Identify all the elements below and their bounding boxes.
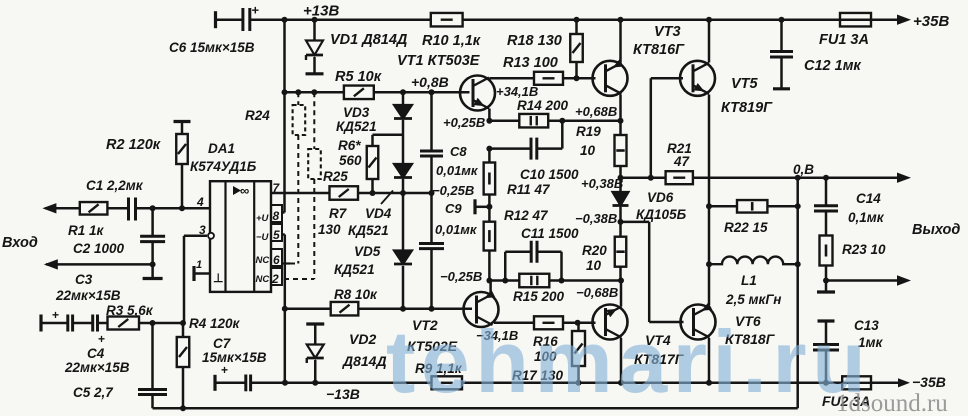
wire dashed to pin6 <box>282 262 298 264</box>
svg-text:С4: С4 <box>87 346 105 361</box>
label C7 <box>202 336 267 365</box>
wire +0.38V line and 0V output line <box>621 176 898 179</box>
svg-text:R13 100: R13 100 <box>503 55 558 71</box>
arrow output <box>897 275 911 285</box>
wire pin3 <box>184 233 214 323</box>
svg-text:С10 1500: С10 1500 <box>520 167 579 182</box>
svg-text:R6*: R6* <box>338 138 361 153</box>
svg-text:С2 1000: С2 1000 <box>73 241 125 256</box>
svg-text:R20: R20 <box>582 243 607 258</box>
label C14 <box>848 191 885 225</box>
svg-text:С3: С3 <box>75 272 93 287</box>
svg-text:DA1: DA1 <box>208 141 235 156</box>
transistor VT1 <box>460 76 495 111</box>
svg-text:5: 5 <box>273 228 280 242</box>
capacitor C6 <box>216 3 260 32</box>
svg-text:4: 4 <box>196 195 204 209</box>
resistor R21 <box>666 171 693 184</box>
svg-text:−0,38В: −0,38В <box>575 211 617 226</box>
svg-text:−35В: −35В <box>912 374 946 390</box>
resistor R3 <box>108 317 140 330</box>
svg-text:NC: NC <box>256 255 270 266</box>
svg-text:22мк×15В: 22мк×15В <box>55 288 121 303</box>
common tap between R11 R12 <box>475 199 489 214</box>
junction dots output node <box>706 203 829 283</box>
wire pin7 line <box>271 192 432 195</box>
resistor R25 (dashed) <box>308 92 321 279</box>
label VD4 <box>348 191 393 239</box>
label VD2 <box>342 331 387 369</box>
junction dots feedback <box>150 320 187 411</box>
svg-text:КД521: КД521 <box>336 119 377 134</box>
svg-text:+13В: +13В <box>303 3 339 20</box>
svg-text:NC: NC <box>256 274 270 285</box>
fuse FU2 <box>842 376 871 389</box>
svg-text:∞: ∞ <box>240 183 249 198</box>
svg-text:8: 8 <box>273 209 280 223</box>
svg-text:Выход: Выход <box>912 222 960 238</box>
wire +13V drop to DA1 pin8 <box>282 20 285 213</box>
capacitor C11 <box>505 241 561 281</box>
resistor R14 <box>519 114 548 128</box>
wire R6 top link <box>373 135 404 146</box>
svg-text:R7: R7 <box>329 206 348 221</box>
svg-text:−13В: −13В <box>326 386 360 402</box>
svg-text:С11 1500: С11 1500 <box>521 226 579 241</box>
arrow input 2 <box>44 259 58 269</box>
svg-text:2,5 мкГн: 2,5 мкГн <box>725 292 781 307</box>
svg-text:R25: R25 <box>323 169 348 184</box>
DA1 pin 6 box <box>271 249 282 266</box>
capacitor C13 <box>813 321 839 383</box>
wire VD3-VD4 <box>402 120 405 164</box>
wire R5 bias line <box>285 91 470 94</box>
junction dot R18 <box>574 75 580 81</box>
wire input line 2 <box>46 263 153 266</box>
transistor VT2 <box>464 290 499 327</box>
junction dot R11 R12 tap <box>486 204 492 210</box>
DA1 pin numbers <box>271 181 281 286</box>
wire VT2 collector line <box>494 322 596 325</box>
junction dot R17 top <box>575 320 581 326</box>
svg-text:R23 10: R23 10 <box>842 242 886 257</box>
wire +13V/+35V top rail <box>217 18 898 21</box>
svg-text:3: 3 <box>199 223 206 237</box>
svg-text:15мк×15В: 15мк×15В <box>202 350 267 365</box>
resistor R10 <box>431 13 463 27</box>
capacitor C3 elco <box>52 308 73 332</box>
label VT5 <box>721 76 773 116</box>
svg-text:VD6: VD6 <box>647 190 674 205</box>
capacitor C2 <box>140 208 165 264</box>
resistor R9 <box>432 376 463 389</box>
resistor R23 <box>820 236 833 281</box>
wire VT3 collector <box>619 20 622 63</box>
svg-text:+0,8В: +0,8В <box>411 74 449 90</box>
capacitor C7 <box>215 363 285 391</box>
junction dots input <box>150 205 185 267</box>
svg-text:+34,1В: +34,1В <box>496 84 538 99</box>
label C13 <box>854 318 883 350</box>
transistor VT5 <box>680 61 715 96</box>
svg-text:R18 130: R18 130 <box>507 33 562 49</box>
junction dots 0.38 line <box>618 175 830 181</box>
svg-text:1: 1 <box>196 259 202 271</box>
DA1 pin 8 box <box>271 205 282 222</box>
svg-text:10: 10 <box>580 143 596 158</box>
wire VT5 collector <box>708 20 711 63</box>
resistor R20 <box>615 222 627 281</box>
svg-text:R1 1к: R1 1к <box>68 223 105 238</box>
label DA1 <box>190 141 257 174</box>
svg-text:VD2: VD2 <box>349 331 376 347</box>
svg-text:С12 1мк: С12 1мк <box>804 58 861 74</box>
op-amp DA1 <box>210 181 271 292</box>
svg-text:С14: С14 <box>856 191 881 206</box>
zener VD2 <box>306 324 324 383</box>
label C9 <box>435 201 478 237</box>
fuse FU1 <box>840 13 871 27</box>
diode VD6 <box>613 178 629 222</box>
svg-text:Вход: Вход <box>2 235 38 251</box>
resistor R17 <box>572 323 585 383</box>
svg-text:С6 15мк×15В: С6 15мк×15В <box>169 40 255 55</box>
resistor R19 <box>615 121 627 178</box>
resistor R13 <box>534 72 563 85</box>
svg-text:−0,68В: −0,68В <box>576 285 618 300</box>
capacitor C14 <box>814 178 838 236</box>
resistor R1 <box>80 202 108 215</box>
arrow -35V <box>898 378 910 387</box>
svg-text:С1 2,2мк: С1 2,2мк <box>86 178 144 193</box>
wire speaker return <box>796 178 799 409</box>
svg-text:−U: −U <box>256 232 270 243</box>
svg-text:22мк×15В: 22мк×15В <box>64 360 130 375</box>
resistor R7 <box>330 186 359 200</box>
wire VD5 bottom <box>402 266 405 309</box>
svg-text:FU1 3А: FU1 3А <box>819 32 869 48</box>
svg-text:R5 10к: R5 10к <box>335 69 382 85</box>
svg-text:+U: +U <box>256 213 270 224</box>
svg-text:2: 2 <box>271 272 279 286</box>
label C3 <box>55 272 121 303</box>
diode VD3 <box>394 105 412 119</box>
resistor R12 <box>484 207 496 281</box>
svg-text:С5 2,7: С5 2,7 <box>73 385 114 400</box>
label VD3 <box>336 105 377 134</box>
wire VD3 top <box>402 92 405 104</box>
junction dots top rail <box>282 17 785 23</box>
svg-text:L1: L1 <box>741 273 757 288</box>
wire VT5 emitter <box>708 95 711 306</box>
svg-text:С7: С7 <box>213 336 232 351</box>
label R16 <box>533 334 558 364</box>
wire output R22 line <box>709 205 798 208</box>
diode VD5 <box>394 251 412 265</box>
label R20 <box>582 243 607 273</box>
wire VD5 top <box>402 193 405 250</box>
wire dashed to pin2 <box>284 278 314 280</box>
svg-text:С9: С9 <box>445 201 462 216</box>
svg-text:VT5: VT5 <box>731 76 759 92</box>
label VT3 <box>633 24 685 58</box>
capacitor C12 <box>770 20 793 89</box>
label C8 <box>436 144 479 178</box>
wire VT6 base <box>621 222 684 322</box>
label VT6 <box>725 313 776 347</box>
svg-text:R2 120к: R2 120к <box>106 137 161 153</box>
zener VD1 <box>306 20 324 74</box>
svg-text:130: 130 <box>318 222 341 237</box>
label R19 <box>576 124 601 158</box>
svg-text:47: 47 <box>673 154 691 169</box>
svg-text:+0,68В: +0,68В <box>575 104 617 119</box>
svg-text:VT1 КТ503Е: VT1 КТ503Е <box>397 53 481 69</box>
svg-text:+0,25В: +0,25В <box>443 115 485 130</box>
capacitor C4 elco <box>93 315 105 347</box>
common bar under C2 <box>143 277 163 280</box>
wire VT4 emitter <box>620 281 623 307</box>
svg-text:R10 1,1к: R10 1,1к <box>422 33 481 49</box>
label L1 <box>725 273 781 307</box>
wire C2 to common <box>151 264 154 277</box>
transistor VT3 <box>593 59 628 96</box>
svg-text:R8 10к: R8 10к <box>334 287 378 302</box>
svg-text:КД105Б: КД105Б <box>636 207 687 222</box>
junction dots -35V rail <box>282 380 829 386</box>
transistor VT4 <box>593 305 628 340</box>
svg-text:R3 5,6к: R3 5,6к <box>106 303 154 318</box>
svg-text:−0,25В: −0,25В <box>432 183 474 198</box>
common bar below R23 <box>817 290 835 293</box>
svg-text:VD3: VD3 <box>343 105 370 120</box>
wire output arrow line <box>826 279 897 282</box>
svg-text:+: + <box>221 363 228 377</box>
resistor R15 <box>519 274 549 288</box>
svg-text:VT3: VT3 <box>654 24 681 40</box>
svg-text:КД521: КД521 <box>334 262 375 277</box>
resistor R24 (dashed) <box>293 92 306 263</box>
svg-text:+: + <box>98 332 105 346</box>
capacitor C9 <box>419 193 444 309</box>
svg-text:С8: С8 <box>450 144 467 159</box>
svg-text:К574УД1Б: К574УД1Б <box>190 159 257 174</box>
resistor R22 <box>737 200 767 213</box>
svg-text:R19: R19 <box>576 124 601 139</box>
diode VD4 <box>394 164 412 178</box>
junction dots VT2 base line <box>282 306 435 312</box>
svg-text:tehmari.ru: tehmari.ru <box>386 312 871 411</box>
wire VT3 emitter <box>619 95 622 121</box>
label VT4 <box>634 332 685 367</box>
svg-text:R15 200: R15 200 <box>513 289 565 304</box>
wire VT1 emitter <box>488 109 491 121</box>
wire bottom common rail <box>153 407 798 410</box>
DA1 pin1 stub <box>194 259 210 281</box>
svg-text:R12 47: R12 47 <box>504 208 549 223</box>
resistor R8 <box>331 302 359 316</box>
wire R15 line <box>489 279 621 282</box>
wire VT2 emitter <box>489 281 492 295</box>
junction dots -0.68 line <box>486 278 624 284</box>
wire R23 to common <box>825 281 828 292</box>
svg-text:VD1 Д814Д: VD1 Д814Д <box>330 32 408 48</box>
svg-text:VD4: VD4 <box>365 206 392 221</box>
svg-text:560: 560 <box>339 153 362 168</box>
svg-text:VD5: VD5 <box>354 244 381 259</box>
wire VT6 collector <box>708 338 711 383</box>
resistor R4 <box>177 323 190 408</box>
resistor R5 <box>344 86 374 100</box>
wire VD4 bottom <box>402 179 405 193</box>
svg-text:R14 200: R14 200 <box>517 98 569 113</box>
svg-text:0,01мк: 0,01мк <box>435 222 478 237</box>
wire -13V rail <box>285 382 903 385</box>
svg-text:+35В: +35В <box>913 13 949 30</box>
svg-text:Д814Д: Д814Д <box>342 353 387 369</box>
capacitor C8 <box>420 92 443 193</box>
label VD5 <box>334 244 381 277</box>
arrow +35V <box>897 15 911 25</box>
wire feedback line <box>42 322 184 325</box>
DA1 pin 5 box <box>271 224 282 241</box>
svg-text:R4 120к: R4 120к <box>189 316 241 331</box>
label VD6 <box>636 190 687 222</box>
junction dots bias line <box>282 89 435 95</box>
resistor R6 <box>367 146 379 179</box>
junction dot VD6 node <box>618 219 624 225</box>
junction dots emitter line top <box>486 118 623 152</box>
svg-text:0,В: 0,В <box>793 162 814 177</box>
svg-text:R22 15: R22 15 <box>724 220 768 235</box>
transistor VT6 <box>681 302 716 339</box>
junction dots pin7 line <box>370 190 435 196</box>
label VT2 <box>407 317 458 354</box>
resistor R18 <box>570 20 583 79</box>
svg-text:6: 6 <box>273 253 280 267</box>
svg-text:КТ816Г: КТ816Г <box>633 42 685 58</box>
svg-text:−0,25В: −0,25В <box>440 269 482 284</box>
svg-text:КД521: КД521 <box>348 223 389 238</box>
svg-text:КТ819Г: КТ819Г <box>721 100 773 116</box>
svg-text:R24: R24 <box>245 108 270 123</box>
wire input line 1 <box>45 207 210 210</box>
svg-text:R11 47: R11 47 <box>507 182 551 197</box>
resistor R11 <box>484 149 496 207</box>
terminal bar input gnd <box>39 315 42 332</box>
capacitor C5 <box>138 323 167 408</box>
svg-text:+: + <box>252 3 260 18</box>
inductor L1 <box>709 257 798 265</box>
arrow 0V <box>897 173 911 183</box>
DA1 supply marks <box>256 213 270 285</box>
wire VT2 base line <box>285 307 472 310</box>
label R21 <box>667 141 692 169</box>
label R7 <box>318 206 348 237</box>
capacitor C1 <box>129 198 136 221</box>
svg-text:⊥: ⊥ <box>213 271 223 285</box>
svg-text:0,01мк: 0,01мк <box>436 163 479 178</box>
resistor R2 <box>174 122 191 209</box>
svg-text:+: + <box>52 308 59 322</box>
wire R6 bottom <box>371 179 374 193</box>
DA1 pin 2 box <box>271 268 282 285</box>
resistor R16 <box>534 316 563 329</box>
svg-text:10: 10 <box>586 258 602 273</box>
svg-text:0,1мк: 0,1мк <box>848 210 885 225</box>
wire VT4 collector <box>620 338 623 383</box>
wire VT5 base <box>651 78 683 177</box>
wire R14 line <box>489 119 620 122</box>
label C4 <box>64 346 130 375</box>
capacitor C10 <box>489 121 562 160</box>
svg-text:+0,38В: +0,38В <box>581 176 623 191</box>
arrow input 1 <box>42 203 56 213</box>
wire DA1 pin5 to -13V <box>282 235 285 383</box>
label R6 <box>338 138 362 168</box>
svg-text:1dsound.ru: 1dsound.ru <box>836 390 948 416</box>
wire VT1 collector <box>489 77 595 80</box>
